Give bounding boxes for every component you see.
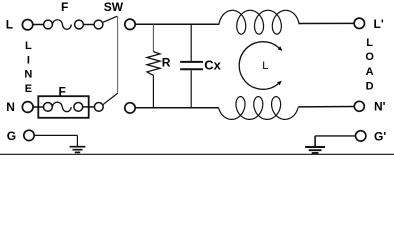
svg-text:O: O: [365, 51, 374, 63]
svg-text:E: E: [25, 83, 32, 95]
svg-text:A: A: [366, 66, 374, 78]
svg-text:I: I: [27, 54, 30, 66]
svg-text:L: L: [366, 37, 373, 49]
svg-text:N: N: [6, 100, 15, 114]
svg-text:F: F: [61, 0, 68, 14]
svg-text:G': G': [374, 129, 386, 143]
svg-text:SW: SW: [104, 0, 124, 14]
svg-text:R: R: [162, 56, 171, 70]
svg-text:G: G: [7, 129, 16, 143]
svg-text:F: F: [59, 84, 66, 98]
svg-text:L: L: [6, 18, 13, 32]
svg-text:N: N: [24, 69, 32, 81]
svg-text:L': L': [374, 17, 384, 31]
svg-text:L: L: [262, 60, 268, 72]
svg-text:Cx: Cx: [204, 58, 221, 73]
svg-text:L: L: [25, 40, 32, 52]
svg-text:D: D: [366, 81, 374, 93]
svg-text:N': N': [374, 100, 386, 114]
